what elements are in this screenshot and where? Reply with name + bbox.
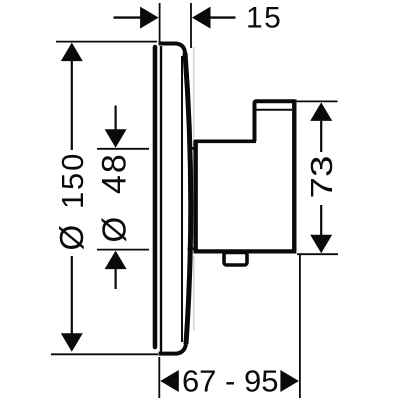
svg-text:67 - 95: 67 - 95	[182, 364, 279, 399]
svg-text:Ø150: Ø150	[53, 152, 90, 251]
dimension D48: upper arrowhead pointing down	[105, 129, 127, 148]
dimension D150: top arrowhead	[61, 43, 83, 62]
dimension D150: top extension line	[56, 41, 157, 43]
dimension 15: text label	[246, 2, 282, 35]
dimension 67-95: text label	[182, 364, 279, 399]
svg-text:73: 73	[304, 156, 339, 199]
dimension D48: lower leader line	[114, 268, 116, 290]
escutcheon plate front rim chord line	[181, 56, 183, 342]
svg-text:15: 15	[246, 2, 282, 35]
dimension 15: right extension line	[190, 3, 192, 48]
dimension D150: bottom extension line	[51, 353, 158, 355]
faint front contour line upper	[193, 47, 195, 138]
handle body rectangle	[194, 141, 297, 251]
dimension 15: left extension line	[159, 3, 161, 44]
dimension D150: dimension line upper segment	[71, 60, 73, 150]
dimension D48: text label rotated	[96, 152, 134, 242]
dimension 73: dimension line lower segment	[320, 205, 322, 236]
dimension D48: top extension line	[97, 148, 149, 150]
bottom tab on handle body	[224, 253, 247, 266]
dimension 15: right leader line	[210, 16, 236, 18]
dimension 15: left leader line	[114, 16, 142, 18]
dimension 67-95: left extension line	[158, 357, 160, 398]
dimension 73: top arrowhead pointing up	[310, 102, 332, 121]
handle cap rectangle	[255, 99, 295, 251]
dimension D48: upper leader line	[114, 106, 116, 132]
dimension D150: dimension line lower segment	[71, 256, 73, 335]
dimension D150: text label rotated	[53, 152, 90, 251]
dimension 73: bottom extension line	[297, 253, 338, 255]
faint front contour line lower	[193, 256, 195, 330]
dimension 67-95: right arrowhead pointing right	[280, 370, 299, 392]
escutcheon plate front cover outline	[159, 44, 191, 354]
dimension 67-95: left arrowhead pointing left	[160, 370, 179, 392]
dimension 15: left arrowhead	[140, 7, 159, 29]
handle cap inner groove line	[257, 109, 293, 111]
dimension 15: right arrowhead	[192, 7, 211, 29]
dimension D150: bottom arrowhead	[61, 333, 83, 352]
hub edge segment bottom (between plate and body)	[188, 247, 196, 250]
hub edge segment top (between plate and body)	[188, 147, 196, 150]
dimension D48: bottom extension line	[97, 249, 149, 251]
dimension D48: lower arrowhead pointing up	[105, 251, 127, 270]
escutcheon plate back flange	[153, 47, 158, 347]
dimension 73: top extension line	[297, 100, 338, 102]
dimension 73: dimension line upper segment	[320, 120, 322, 153]
dimension 67-95: right extension line	[299, 255, 301, 398]
dimension 73: bottom arrowhead pointing down	[310, 235, 332, 254]
dimension 73: text label rotated	[304, 156, 339, 199]
